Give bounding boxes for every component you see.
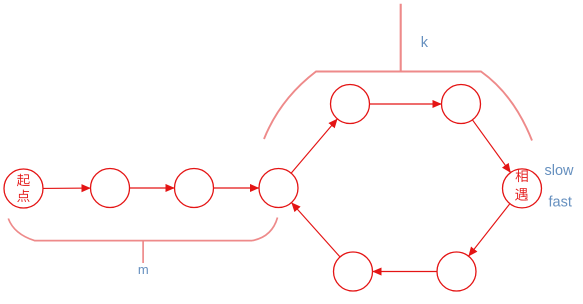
node 6 cycle top-right <box>442 85 481 124</box>
wire arrow N8 to N9 <box>373 271 438 273</box>
label 起点 text in start node <box>17 174 30 202</box>
wire arrow N3 to N4 <box>214 187 260 189</box>
node 5 cycle top-left <box>331 85 370 124</box>
wire arrow N7 to N8 <box>469 204 510 257</box>
node 9 cycle bottom-left <box>334 252 373 291</box>
wire arrow N1 to N2 <box>43 187 91 189</box>
node 2 <box>91 169 130 208</box>
wire arrow N4 to N5 <box>291 119 337 173</box>
brace m tick <box>142 241 144 263</box>
node 4 cycle entry <box>259 169 298 208</box>
svg-text:slow: slow <box>545 163 575 179</box>
start node 起点 <box>4 169 43 208</box>
svg-text:fast: fast <box>549 195 572 211</box>
wire arrow N9 to N4 <box>292 203 341 257</box>
meeting node 相遇 <box>503 169 542 208</box>
node 3 <box>175 169 214 208</box>
brace m under head chain <box>8 218 277 241</box>
svg-text:m: m <box>138 262 149 277</box>
wire arrow N6 to N7 <box>472 120 510 173</box>
brace k over cycle <box>264 72 532 141</box>
brace k tick line <box>400 4 402 72</box>
node 8 cycle bottom-right <box>437 252 476 291</box>
svg-text:k: k <box>421 35 429 51</box>
wire arrow N2 to N3 <box>130 187 175 189</box>
wire arrow N5 to N6 <box>370 103 442 105</box>
label 相遇 text in meeting node <box>515 170 528 201</box>
